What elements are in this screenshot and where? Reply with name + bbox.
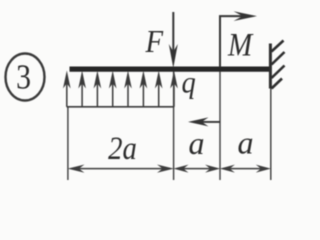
extension line left (x=68)	[67, 107, 69, 180]
dimension a first	[173, 165, 220, 173]
svg-text:2a: 2a	[108, 129, 137, 166]
dimension a second	[220, 165, 271, 173]
wall support line	[269, 44, 272, 89]
svg-text:F: F	[145, 24, 164, 60]
svg-text:a: a	[238, 125, 254, 161]
dimension 2a	[68, 165, 174, 173]
beam	[70, 66, 271, 71]
distributed load arrow 5	[124, 71, 132, 107]
wall hatch 3	[272, 66, 285, 79]
distributed load arrow 4	[109, 71, 117, 107]
wall hatch 4	[272, 79, 283, 89]
distributed load q: baseline	[67, 106, 175, 108]
problem number circle 3	[6, 54, 45, 101]
svg-text:a: a	[189, 125, 205, 161]
leftward arrow under beam	[188, 117, 220, 126]
distributed load arrow 7	[155, 71, 163, 107]
distributed load arrow 8	[170, 71, 178, 107]
distributed load arrow 2	[78, 71, 86, 107]
wall hatch 2	[272, 52, 285, 65]
extension line under F (x=173.6)	[173, 72, 175, 181]
extension line under M (x=220)	[219, 72, 221, 181]
wall hatch 1	[272, 41, 284, 52]
distributed load arrow 6	[140, 71, 148, 107]
svg-text:q: q	[182, 65, 196, 99]
distributed load arrow 1	[63, 71, 71, 107]
extension line at wall (x=270.8)	[270, 89, 272, 181]
moment M arrow	[220, 11, 257, 67]
svg-text:M: M	[227, 26, 254, 63]
force F arrow	[169, 12, 178, 68]
svg-text:3: 3	[16, 58, 31, 97]
distributed load arrow 3	[94, 71, 102, 107]
